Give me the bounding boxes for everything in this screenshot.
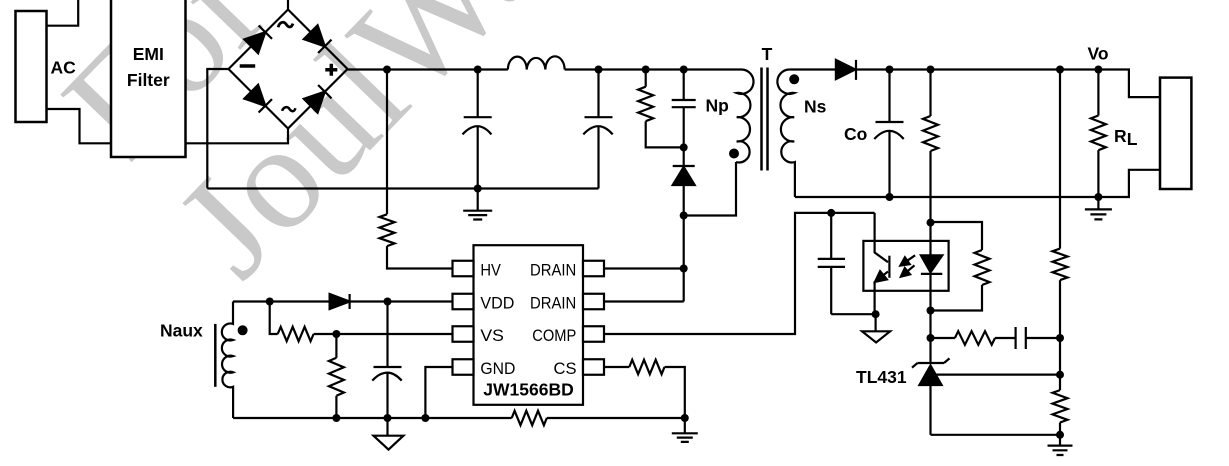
IC U1 pin boxes — [453, 261, 605, 375]
wire Vo rail — [856, 70, 1160, 98]
node CS sense ground — [681, 414, 689, 422]
capacitor Co (output) — [874, 70, 903, 198]
opto phototransistor — [875, 213, 890, 314]
svg-text:Ns: Ns — [804, 97, 827, 117]
node COMP/C5 — [827, 209, 835, 217]
node drain/primary link — [680, 212, 688, 220]
svg-text:DRAIN: DRAIN — [530, 294, 576, 313]
capacitor C6 (compensation) — [1016, 327, 1060, 349]
ground (COMP, triangle) — [862, 314, 890, 342]
wire LED cathode to TL431 — [929, 311, 931, 364]
label T — [762, 44, 773, 64]
node Vo/Co — [886, 66, 894, 74]
aux winding Naux — [222, 302, 233, 419]
wire secondary ground rail — [795, 170, 1160, 197]
resistor R11 (divider lower) — [1053, 390, 1068, 435]
node Vo/divider — [1056, 66, 1064, 74]
node R5/aux ground rail — [332, 414, 340, 422]
svg-text:CS: CS — [554, 359, 577, 378]
node compensation branch — [927, 334, 935, 342]
aux core bar — [214, 324, 217, 387]
transformer core — [762, 68, 768, 171]
node DC+/C2 — [595, 66, 603, 74]
wire primary bottom to drain — [684, 162, 736, 216]
wire AC plug bottom stub — [47, 109, 112, 143]
ground (bulk cap) — [463, 189, 492, 220]
node VS/R5 — [332, 330, 340, 338]
node VDD/VS branch — [266, 298, 274, 306]
diode D7 (VDD rectifier) — [330, 294, 350, 309]
ground (divider) — [1048, 435, 1073, 455]
wire DRAIN pin1 — [604, 267, 684, 269]
label Co — [844, 124, 867, 144]
node R3/LED/R8 — [927, 219, 935, 227]
svg-text:HV: HV — [480, 261, 501, 280]
secondary polarity dot — [789, 74, 799, 84]
resistor R8 (LED bias) — [931, 222, 990, 311]
bridge diode D1 (left to top) — [244, 26, 272, 54]
inductor L1 — [508, 56, 565, 69]
node GND/aux ground rail — [421, 414, 429, 422]
svg-text:AC: AC — [51, 58, 77, 78]
pin label DRAIN2 — [530, 294, 576, 313]
svg-text:Filter: Filter — [127, 70, 170, 90]
svg-text:Np: Np — [706, 96, 729, 116]
node DC+/C1 — [474, 66, 482, 74]
wire TL431 ref — [936, 374, 1060, 376]
capacitor C2 (filter) — [583, 70, 612, 189]
bridge diode D3 (left to bottom) — [244, 85, 272, 113]
IC U1 JW1566BD body — [474, 245, 584, 405]
node divider bottom — [1056, 431, 1064, 439]
resistor R2 (clamp) — [638, 70, 684, 148]
node Vo/R3 — [927, 66, 935, 74]
wire TL431 anode to divider bottom — [931, 434, 1061, 436]
label Vo — [1088, 44, 1109, 64]
label bridge minus — [240, 64, 256, 68]
output load plug — [1160, 78, 1191, 189]
svg-text:R: R — [1114, 126, 1127, 146]
ground (output) — [1085, 197, 1112, 219]
label bridge AC bottom — [282, 107, 295, 111]
aux polarity dot — [238, 325, 248, 335]
wire primary return rail — [207, 187, 598, 189]
svg-text:T: T — [762, 44, 773, 64]
resistor R7 (CS) — [604, 360, 685, 418]
node drain pin1 — [680, 265, 688, 273]
capacitor C5 (COMP) — [818, 213, 845, 314]
node DC+/R2 — [642, 66, 650, 74]
node opto emitter/ground — [872, 310, 880, 318]
EMI filter block — [111, 0, 186, 157]
pin label HV — [480, 261, 501, 280]
AC input plug — [16, 11, 47, 122]
diode D6 (output rectifier) — [836, 60, 856, 80]
wire AC plug top stub — [47, 0, 79, 26]
svg-text:DRAIN: DRAIN — [530, 261, 576, 280]
transformer T primary winding Np — [736, 69, 753, 162]
wire DC+ rail right of inductor — [565, 68, 741, 70]
label Ns — [804, 97, 827, 117]
wire bridge minus to bottom rail — [207, 69, 228, 189]
wire Vo to divider — [1059, 70, 1061, 249]
bridge diode D2 (top to right) — [304, 25, 332, 53]
label Naux — [160, 321, 203, 341]
pin label GND — [480, 359, 515, 378]
svg-text:VS: VS — [480, 326, 504, 345]
label JW1566BD — [483, 380, 573, 400]
wire C5 to opto emitter — [831, 313, 875, 315]
wire EMI filter to bridge AC node — [186, 129, 289, 144]
svg-text:Co: Co — [844, 124, 867, 144]
resistor R9 (compensation) — [931, 331, 1016, 345]
svg-text:JW1566BD: JW1566BD — [483, 380, 573, 400]
label AC — [51, 58, 77, 78]
svg-text:COMP: COMP — [532, 326, 576, 345]
wire VDD line — [233, 300, 453, 302]
resistor RL (load) — [1091, 70, 1106, 198]
node DC+/R1 — [383, 66, 391, 74]
node RL/secondary ground — [1094, 193, 1102, 201]
diode D5 (clamp) — [673, 147, 695, 301]
node DC+/C3 — [680, 66, 688, 74]
resistor R3 (feedback upper) — [923, 70, 938, 223]
node Vo/RL — [1094, 66, 1102, 74]
ground (CS sense) — [672, 418, 698, 442]
transformer secondary winding Ns — [777, 69, 794, 197]
bridge rectifier diamond — [229, 10, 348, 129]
optocoupler U2 box — [863, 241, 948, 291]
pin label VDD — [480, 294, 514, 313]
resistor R5 (VS lower) — [329, 334, 344, 418]
wire secondary top to output diode — [790, 68, 836, 70]
bridge diode D4 (bottom to right) — [304, 85, 332, 113]
svg-text:TL431: TL431 — [856, 367, 907, 387]
wire bridge top stub — [287, 0, 289, 10]
TL431 U3 — [912, 358, 950, 434]
svg-text:Vo: Vo — [1088, 44, 1109, 64]
node clamp RC junction — [680, 143, 688, 151]
capacitor C4 (VDD) — [372, 302, 401, 419]
wire aux ground rail right — [547, 417, 685, 419]
svg-text:GND: GND — [480, 359, 515, 378]
wire DC+ rail left of inductor — [348, 68, 508, 70]
node LED cathode/R8 — [927, 307, 935, 315]
pin label COMP — [532, 326, 576, 345]
node divider/compensation — [1056, 334, 1064, 342]
node VDD/C4 — [384, 298, 392, 306]
primary polarity dot — [729, 149, 739, 159]
node C1/ground rail — [474, 185, 482, 193]
node C4/aux ground rail — [384, 414, 392, 422]
resistor R1 (HV startup) — [380, 70, 453, 269]
opto LED — [921, 223, 942, 311]
capacitor C1 (bulk) — [463, 70, 492, 189]
node divider/ref — [1056, 371, 1064, 379]
resistor R10 (divider upper) — [1053, 249, 1068, 391]
svg-text:Naux: Naux — [160, 321, 203, 341]
label Np — [706, 96, 729, 116]
pin label DRAIN1 — [530, 261, 576, 280]
ground (signal, triangle) — [374, 418, 404, 450]
label TL431 — [856, 367, 907, 387]
pin label CS — [554, 359, 577, 378]
wire GND pin — [425, 367, 452, 418]
svg-text:VDD: VDD — [480, 294, 514, 313]
label bridge plus — [325, 64, 337, 76]
opto light arrows — [900, 255, 915, 276]
wire aux ground rail left — [233, 417, 512, 419]
resistor R6 (in ground rail) — [512, 411, 547, 425]
node Co/secondary ground — [886, 193, 894, 201]
capacitor C3 (clamp) — [672, 70, 696, 148]
resistor R4 (VS upper) — [270, 302, 453, 342]
label RL — [1114, 126, 1138, 149]
svg-text:EMI: EMI — [133, 44, 164, 64]
wire DRAIN pin2 — [604, 300, 684, 302]
wire COMP trace — [604, 213, 875, 334]
label bridge AC top — [278, 22, 293, 27]
pin label VS — [480, 326, 504, 345]
svg-text:L: L — [1127, 129, 1138, 149]
